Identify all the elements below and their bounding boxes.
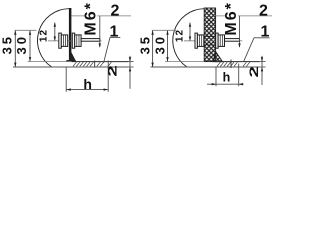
svg-text:12: 12: [175, 29, 186, 42]
svg-text:35: 35: [138, 34, 153, 54]
svg-text:M6*: M6*: [82, 1, 99, 35]
svg-text:h: h: [83, 76, 92, 92]
svg-text:12: 12: [39, 29, 50, 42]
svg-text:30: 30: [153, 34, 168, 54]
svg-text:2: 2: [111, 2, 120, 19]
svg-text:2: 2: [259, 2, 268, 19]
svg-text:1: 1: [110, 23, 119, 40]
svg-text:1: 1: [261, 24, 270, 41]
svg-text:35: 35: [0, 34, 15, 54]
svg-text:M6*: M6*: [223, 1, 240, 35]
svg-text:2: 2: [247, 66, 260, 78]
svg-text:2: 2: [106, 65, 119, 77]
svg-text:h: h: [223, 71, 231, 85]
svg-text:30: 30: [14, 34, 29, 54]
